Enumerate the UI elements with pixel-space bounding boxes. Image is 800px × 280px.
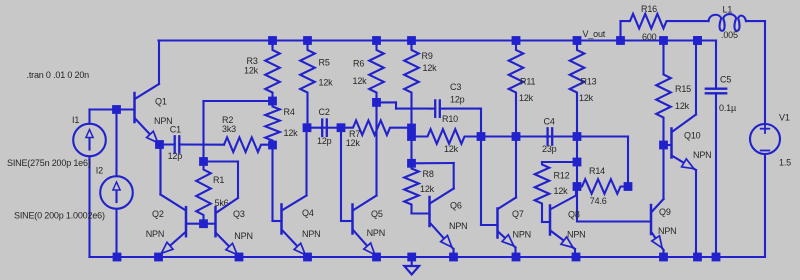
resistor R13 bbox=[570, 41, 585, 137]
wire bottom ground rail bbox=[90, 256, 766, 258]
junction I2 rail bbox=[113, 253, 122, 262]
resistor R12 bbox=[535, 162, 577, 222]
label Q2 NPN bbox=[146, 229, 164, 239]
svg-text:I1: I1 bbox=[72, 115, 79, 125]
svg-text:74.6: 74.6 bbox=[590, 196, 607, 206]
junction C5 bottom rail bbox=[712, 253, 721, 262]
resistor R2 bbox=[224, 137, 273, 152]
svg-text:3k3: 3k3 bbox=[222, 124, 236, 134]
svg-text:Q6: Q6 bbox=[450, 200, 462, 210]
junction Q6 emitter rail bbox=[449, 253, 458, 262]
svg-text:Q4: Q4 bbox=[302, 208, 314, 218]
current source I2 bbox=[100, 110, 133, 258]
svg-text:Q2: Q2 bbox=[152, 209, 164, 219]
label Q3 bbox=[233, 209, 245, 219]
svg-text:R6: R6 bbox=[353, 58, 364, 68]
label R8 bbox=[423, 169, 434, 179]
label R12 bbox=[554, 170, 570, 180]
svg-text:Q9: Q9 bbox=[659, 207, 671, 217]
label R13 bbox=[581, 77, 597, 87]
svg-text:R8: R8 bbox=[423, 169, 434, 179]
capacitor C5 bbox=[706, 41, 726, 258]
junction R4 bottom / R2 bbox=[268, 141, 277, 150]
label C5 value bbox=[719, 103, 736, 113]
svg-text:R12: R12 bbox=[554, 170, 570, 180]
junction C2/R7/Q5 bbox=[337, 123, 346, 132]
svg-text:NPN: NPN bbox=[449, 221, 467, 231]
label R8 value bbox=[420, 184, 435, 194]
junction Q5 emitter rail bbox=[372, 253, 381, 262]
label V_out bbox=[583, 29, 606, 39]
label Q1 bbox=[155, 96, 167, 106]
resistor R6 bbox=[369, 41, 384, 103]
junction R6 bottom bbox=[372, 98, 381, 107]
junction R6 top bbox=[372, 36, 381, 45]
voltage source V1 bbox=[750, 124, 780, 257]
transistor Q3 bbox=[204, 198, 240, 257]
label R6 value bbox=[353, 76, 368, 86]
svg-text:L1: L1 bbox=[723, 5, 733, 15]
label R7 value bbox=[346, 138, 361, 148]
label L1 value bbox=[721, 30, 738, 40]
wire top supply rail bbox=[159, 39, 717, 41]
wire R6 elbow to C3 bbox=[377, 102, 431, 108]
svg-text:12k: 12k bbox=[579, 93, 594, 103]
label Q8 NPN bbox=[567, 229, 585, 239]
resistor R5 bbox=[300, 41, 315, 128]
label R15 value bbox=[675, 101, 690, 111]
resistor R15 bbox=[656, 41, 671, 146]
junction Q10 emitter rail bbox=[693, 253, 702, 262]
svg-text:R5: R5 bbox=[319, 57, 330, 67]
junction R3 top bbox=[268, 36, 277, 45]
svg-text:V1: V1 bbox=[779, 113, 790, 123]
label C2 bbox=[319, 107, 330, 117]
spice directive .tran bbox=[27, 70, 90, 80]
svg-text:12k: 12k bbox=[423, 63, 438, 73]
label Q9 bbox=[659, 207, 671, 217]
inductor L1 bbox=[709, 14, 747, 31]
label R1 value bbox=[215, 198, 229, 208]
resistor R9 bbox=[404, 41, 419, 164]
svg-text:.005: .005 bbox=[721, 30, 738, 40]
label R13 value bbox=[579, 93, 594, 103]
svg-text:NPN: NPN bbox=[567, 229, 585, 239]
capacitor C2 bbox=[307, 120, 341, 136]
wire R3R4 to R1 top bbox=[204, 101, 273, 162]
junction Q2/Q3 base bbox=[199, 219, 208, 228]
svg-text:12k: 12k bbox=[346, 138, 361, 148]
svg-text:R1: R1 bbox=[213, 175, 224, 185]
label C1 bbox=[170, 124, 181, 134]
label C2 value bbox=[317, 136, 332, 146]
junction R13 top / V_out bbox=[573, 36, 582, 45]
wire Q7 base vertical bbox=[481, 137, 498, 226]
svg-text:Q7: Q7 bbox=[512, 209, 524, 219]
label R6 bbox=[353, 58, 364, 68]
resistor R4 bbox=[265, 101, 280, 145]
svg-text:Q1: Q1 bbox=[155, 96, 167, 106]
transistor Q4 bbox=[282, 128, 308, 257]
wire Q6 collector to R8 top bbox=[412, 163, 454, 189]
svg-text:NPN: NPN bbox=[234, 231, 252, 241]
label Q3 NPN bbox=[234, 231, 252, 241]
svg-text:NPN: NPN bbox=[693, 150, 711, 160]
svg-text:Q8: Q8 bbox=[568, 210, 580, 220]
transistor Q9 bbox=[651, 149, 664, 258]
label Q7 bbox=[512, 209, 524, 219]
label R9 value bbox=[423, 63, 438, 73]
resistor R11 bbox=[509, 41, 524, 137]
svg-text:R4: R4 bbox=[284, 107, 295, 117]
label C5 bbox=[720, 74, 731, 84]
svg-text:R14: R14 bbox=[589, 166, 605, 176]
transistor Q10 bbox=[664, 41, 697, 258]
wire Q9 base bbox=[577, 220, 651, 222]
label R4 bbox=[284, 107, 295, 117]
wire R4 to Q4 base bbox=[273, 145, 282, 221]
svg-text:0.1µ: 0.1µ bbox=[719, 103, 736, 113]
junction Q3 emitter rail bbox=[235, 253, 244, 262]
svg-text:C4: C4 bbox=[544, 117, 555, 127]
junction R9 top bbox=[407, 36, 416, 45]
label R9 bbox=[422, 51, 433, 61]
svg-text:12p: 12p bbox=[317, 136, 332, 146]
svg-text:R13: R13 bbox=[581, 77, 597, 87]
svg-text:.tran 0 .01 0 20n: .tran 0 .01 0 20n bbox=[27, 70, 90, 80]
svg-text:Q3: Q3 bbox=[233, 209, 245, 219]
junction R10 left bbox=[407, 132, 416, 141]
node A junction bbox=[155, 140, 164, 149]
label R7 bbox=[349, 129, 360, 139]
transistor Q2 bbox=[160, 145, 204, 258]
junction C4 left bbox=[512, 132, 521, 141]
svg-text:C3: C3 bbox=[450, 82, 461, 92]
label I1 value bbox=[7, 158, 91, 168]
junction Q9 emitter rail bbox=[659, 253, 668, 262]
label R3 value bbox=[244, 66, 259, 76]
label R5 value bbox=[319, 77, 334, 87]
label R4 value bbox=[284, 128, 299, 138]
label V1 bbox=[779, 113, 790, 123]
transistor Q5 bbox=[353, 102, 377, 256]
svg-text:C1: C1 bbox=[170, 124, 181, 134]
svg-text:12k: 12k bbox=[554, 186, 569, 196]
svg-text:12p: 12p bbox=[450, 94, 465, 104]
label V1 value bbox=[779, 157, 791, 167]
junction R15 top bbox=[659, 36, 668, 45]
label C4 bbox=[544, 117, 555, 127]
label Q9 NPN bbox=[658, 226, 676, 236]
label Q10 NPN bbox=[693, 150, 711, 160]
svg-text:SINE(0 200p 1.0002e6): SINE(0 200p 1.0002e6) bbox=[14, 210, 105, 220]
label C3 bbox=[450, 82, 461, 92]
label Q5 bbox=[371, 209, 383, 219]
junction R12 top right bbox=[573, 158, 582, 167]
junction Q7 emitter rail bbox=[512, 253, 521, 262]
svg-text:12k: 12k bbox=[244, 66, 259, 76]
label C1 value bbox=[168, 151, 183, 161]
junction Q10 collector rail bbox=[693, 36, 702, 45]
label Q4 NPN bbox=[302, 229, 320, 239]
resistor R1 bbox=[196, 162, 211, 224]
svg-text:R11: R11 bbox=[520, 77, 535, 87]
label Q1 NPN bbox=[154, 116, 172, 126]
label R11 value bbox=[519, 93, 534, 103]
label Q6 NPN bbox=[449, 221, 467, 231]
label R15 bbox=[675, 84, 691, 94]
junction C5 top rail end bbox=[693, 36, 702, 45]
transistor Q6 bbox=[412, 189, 454, 258]
label L1 bbox=[723, 5, 733, 15]
label I1 bbox=[72, 115, 79, 125]
label Q10 bbox=[684, 130, 701, 140]
svg-text:23p: 23p bbox=[542, 144, 557, 154]
label I2 bbox=[96, 165, 103, 175]
transistor Q8 bbox=[542, 187, 576, 258]
label R16 value bbox=[642, 32, 657, 42]
svg-text:12k: 12k bbox=[353, 76, 368, 86]
svg-text:I2: I2 bbox=[96, 165, 103, 175]
junction R16 branch bbox=[616, 36, 625, 45]
svg-text:12p: 12p bbox=[168, 151, 183, 161]
resistor R16 bbox=[621, 14, 709, 41]
label C3 value bbox=[450, 94, 465, 104]
transistor Q7 bbox=[498, 137, 517, 258]
svg-text:R16: R16 bbox=[641, 4, 657, 14]
label R2 value bbox=[222, 124, 236, 134]
junction R8 top bbox=[407, 159, 416, 168]
svg-text:12k: 12k bbox=[319, 77, 334, 87]
junction R3/R4 bbox=[268, 97, 277, 106]
svg-text:NPN: NPN bbox=[367, 228, 385, 238]
label Q5 NPN bbox=[367, 228, 385, 238]
label R11 bbox=[520, 77, 535, 87]
junction C4 right bbox=[573, 132, 582, 141]
ground bbox=[404, 253, 419, 275]
label R14 value bbox=[590, 196, 607, 206]
svg-text:12k: 12k bbox=[284, 128, 299, 138]
svg-text:Q5: Q5 bbox=[371, 209, 383, 219]
label R3 bbox=[247, 56, 258, 66]
svg-text:R15: R15 bbox=[675, 84, 691, 94]
svg-text:600: 600 bbox=[642, 32, 657, 42]
svg-text:C2: C2 bbox=[319, 107, 330, 117]
junction R5/C2/Q4 bbox=[303, 123, 312, 132]
resistor R3 bbox=[265, 41, 280, 102]
svg-text:NPN: NPN bbox=[658, 226, 676, 236]
label R12 value bbox=[554, 186, 569, 196]
svg-text:12k: 12k bbox=[675, 101, 690, 111]
junction R14 left bbox=[573, 182, 582, 191]
svg-text:Q10: Q10 bbox=[684, 130, 701, 140]
svg-text:V_out: V_out bbox=[583, 29, 606, 39]
svg-text:12k: 12k bbox=[444, 144, 459, 154]
svg-text:R9: R9 bbox=[422, 51, 433, 61]
label R14 bbox=[589, 166, 605, 176]
wire node to C4 bbox=[481, 135, 516, 137]
capacitor C4 bbox=[516, 128, 577, 144]
transistor Q1 bbox=[117, 41, 160, 145]
svg-text:NPN: NPN bbox=[513, 229, 531, 239]
svg-text:1.5: 1.5 bbox=[779, 157, 791, 167]
label R2 bbox=[222, 115, 233, 125]
svg-text:C5: C5 bbox=[720, 74, 731, 84]
junction Q2 emitter rail bbox=[154, 253, 163, 262]
junction Q1 base bbox=[112, 105, 121, 114]
svg-text:NPN: NPN bbox=[146, 229, 164, 239]
resistor R14 bbox=[577, 179, 628, 194]
label Q2 bbox=[152, 209, 164, 219]
resistor R7 bbox=[341, 120, 412, 135]
junction R15 bottom / Q10 base bbox=[659, 141, 668, 150]
capacitor C3 bbox=[430, 100, 481, 136]
junction R1 top bbox=[199, 157, 208, 166]
label Q8 bbox=[568, 210, 580, 220]
wire Q5 base vertical bbox=[341, 128, 353, 221]
capacitor C1 bbox=[160, 136, 225, 152]
junction R5 top bbox=[303, 36, 312, 45]
label I2 value bbox=[14, 210, 105, 220]
label R16 bbox=[641, 4, 657, 14]
wire R14 bypass bbox=[577, 137, 628, 187]
svg-text:NPN: NPN bbox=[302, 229, 320, 239]
junction R7 right bbox=[407, 124, 416, 133]
junction Q4 emitter rail bbox=[303, 253, 312, 262]
label R5 bbox=[319, 57, 330, 67]
current source I1 bbox=[73, 110, 116, 258]
junction R10 right / C3 bbox=[477, 132, 486, 141]
svg-text:R10: R10 bbox=[442, 114, 458, 124]
junction R11 top bbox=[512, 36, 521, 45]
svg-text:SINE(275n 200p 1e6): SINE(275n 200p 1e6) bbox=[7, 158, 91, 168]
wire stub node to Q3 collector bbox=[204, 162, 239, 197]
label Q4 bbox=[302, 208, 314, 218]
resistor R10 bbox=[412, 129, 482, 144]
junction Q8 emitter rail bbox=[572, 253, 581, 262]
resistor R8 bbox=[404, 163, 419, 213]
label R1 bbox=[213, 175, 224, 185]
svg-text:12k: 12k bbox=[519, 93, 534, 103]
label Q6 bbox=[450, 200, 462, 210]
svg-text:12k: 12k bbox=[420, 184, 435, 194]
label Q7 NPN bbox=[513, 229, 531, 239]
wire 577 down bbox=[576, 137, 578, 222]
label R10 bbox=[442, 114, 458, 124]
label R10 value bbox=[444, 144, 459, 154]
wire Q2 collector bbox=[159, 145, 161, 195]
junction R14 right bbox=[624, 182, 633, 191]
wire L1 to V1 bbox=[746, 21, 765, 124]
label C4 value bbox=[542, 144, 557, 154]
